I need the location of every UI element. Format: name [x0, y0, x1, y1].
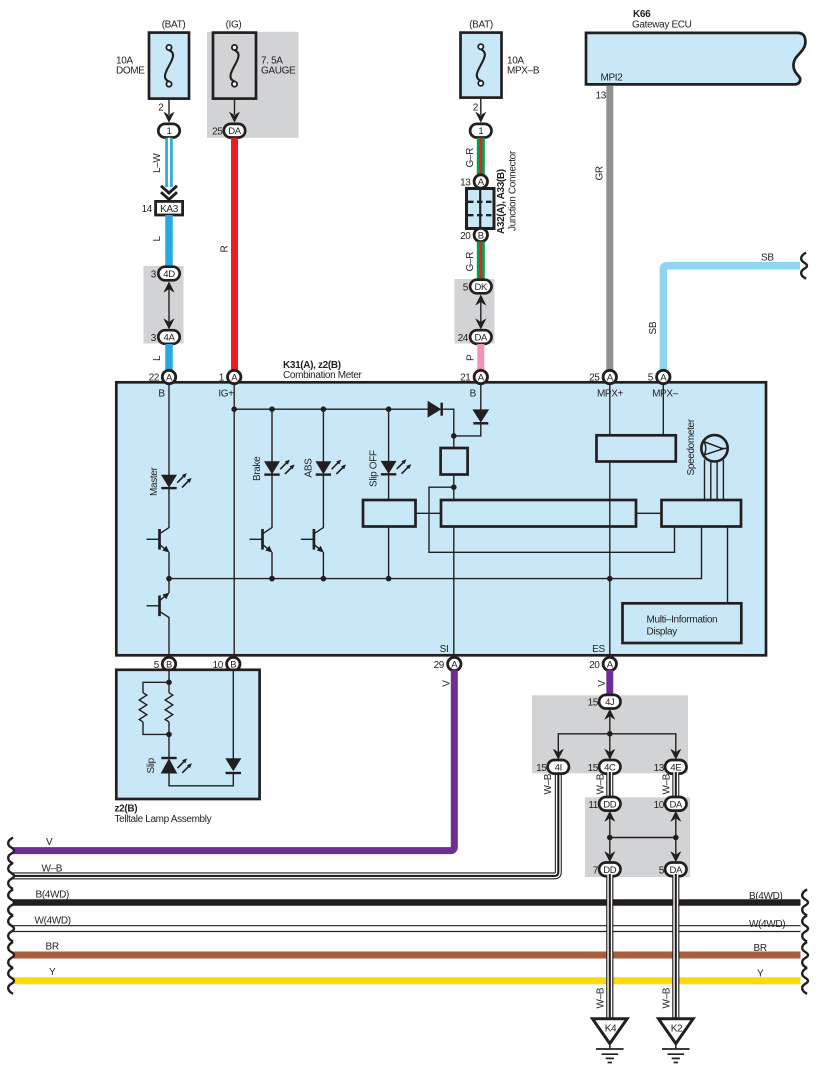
svg-text:10: 10	[654, 800, 665, 811]
svg-text:(BAT): (BAT)	[469, 20, 493, 31]
wire emitter bus	[169, 527, 702, 579]
svg-text:A: A	[231, 373, 238, 384]
wire V (SI to left)	[13, 670, 454, 851]
wire L-W	[152, 138, 169, 187]
svg-text:21: 21	[460, 373, 471, 384]
wire Slip OFF LED to box U2	[388, 475, 390, 501]
svg-text:Master: Master	[149, 467, 160, 496]
svg-text:3: 3	[151, 270, 157, 281]
splice KA3 box	[142, 201, 183, 215]
meter pin 21 A label B	[460, 370, 487, 399]
svg-text:W–B: W–B	[596, 773, 607, 794]
meter pin 10 B	[213, 656, 240, 671]
svg-text:ABS: ABS	[303, 458, 314, 478]
wire SB	[648, 253, 800, 373]
wire U2 below to bus	[388, 527, 390, 580]
svg-text:MPX–B: MPX–B	[507, 66, 540, 77]
wire G-R lower	[465, 242, 481, 281]
wire SI column	[453, 527, 455, 657]
wire node to box U1	[453, 436, 455, 448]
wire Brake column	[271, 409, 273, 461]
svg-text:W–B: W–B	[543, 773, 554, 794]
wire B column (Master)	[168, 383, 170, 475]
svg-text:A: A	[607, 660, 614, 671]
wire tie DD-DA	[610, 837, 676, 839]
svg-text:4J: 4J	[605, 697, 615, 708]
wire SlipOFF column	[388, 409, 390, 461]
wire W-B 4E to DA	[672, 771, 679, 798]
meter pin 5 B	[154, 656, 176, 671]
svg-text:(BAT): (BAT)	[162, 20, 186, 31]
connector pair DD/DA gray block	[585, 797, 690, 877]
connector 4E pin 13	[654, 760, 687, 774]
arrow into 4C	[604, 749, 615, 760]
svg-text:Speedometer: Speedometer	[686, 418, 697, 475]
wire Q3 to bus	[271, 552, 273, 579]
arrows between 4D and 4A	[164, 282, 175, 330]
svg-text:A: A	[478, 177, 485, 188]
LED Slip OFF	[369, 450, 412, 487]
svg-text:13: 13	[460, 178, 471, 189]
wire break V left	[8, 838, 14, 864]
svg-text:Slip: Slip	[146, 757, 157, 773]
wire break Y right	[802, 968, 808, 994]
meter pin 29 A	[434, 657, 461, 671]
resistor R1	[139, 682, 169, 734]
node branch-Brake	[269, 406, 275, 412]
telltale lamp assembly z2(B) box	[115, 670, 260, 825]
connector 4C pin 15	[588, 760, 621, 774]
transistor Q4	[301, 528, 324, 553]
svg-text:5: 5	[463, 283, 469, 294]
fuse F2 7.5A GAUGE gray block	[207, 32, 299, 138]
svg-text:Telltale Lamp Assembly: Telltale Lamp Assembly	[115, 814, 212, 825]
box Multi-Information Display	[623, 603, 742, 643]
node branch-ABS	[321, 406, 327, 412]
svg-text:KA3: KA3	[160, 204, 179, 215]
wire L upper	[152, 215, 169, 270]
transistor Q2	[147, 593, 170, 618]
svg-text:A: A	[478, 373, 485, 384]
arrows and tie DD column	[604, 811, 615, 863]
wire node into U3	[453, 487, 455, 500]
svg-text:B: B	[470, 388, 477, 399]
svg-text:DA: DA	[228, 126, 242, 137]
svg-text:GR: GR	[595, 166, 606, 180]
svg-text:IG+: IG+	[218, 388, 234, 399]
wire Slip LED to diode D3	[169, 774, 233, 786]
svg-text:G–R: G–R	[465, 252, 476, 272]
svg-text:A: A	[660, 373, 667, 384]
connector pair 4D/4A gray block	[144, 266, 184, 344]
wire ABS LED to Q4	[322, 475, 324, 528]
junction connector pin 20 B	[460, 228, 487, 242]
node resistor bottom	[166, 732, 172, 738]
wire pin 10B to diode D3	[232, 670, 234, 759]
svg-text:24: 24	[458, 333, 469, 344]
svg-text:K4: K4	[605, 1024, 617, 1035]
svg-text:11: 11	[588, 800, 598, 811]
svg-text:1: 1	[219, 373, 225, 384]
svg-text:W(4WD): W(4WD)	[749, 919, 785, 930]
LED ABS	[303, 458, 346, 478]
wire break BR right	[802, 942, 808, 968]
wire fuse F2 to connector DA	[229, 98, 240, 123]
svg-text:Brake: Brake	[252, 456, 263, 481]
svg-text:Y: Y	[49, 967, 56, 978]
meter pin 25 A label MPX+	[589, 370, 623, 399]
meter pin 22 A label B	[149, 370, 176, 399]
svg-text:2: 2	[158, 103, 164, 114]
connector 4A	[151, 330, 180, 344]
box U4 (speedometer driver)	[662, 500, 742, 527]
node resistor top	[166, 680, 172, 686]
svg-text:W–B: W–B	[662, 987, 673, 1008]
ground K4	[593, 1019, 628, 1063]
svg-text:Junction Connector: Junction Connector	[508, 150, 519, 231]
svg-text:L: L	[152, 355, 163, 361]
svg-text:V: V	[46, 837, 53, 848]
transistor Q1	[147, 528, 170, 553]
LED Brake	[252, 456, 295, 481]
arrow into 4J	[604, 709, 615, 734]
svg-text:G–R: G–R	[465, 148, 476, 168]
node D1-D2	[451, 433, 457, 439]
wire IG+ column	[233, 383, 235, 656]
meter pin 5 A label MPX-	[648, 370, 679, 399]
wire to Slip LED	[168, 734, 170, 758]
svg-text:4I: 4I	[555, 762, 562, 773]
connector 4D	[151, 267, 180, 281]
wire D2 to node	[454, 423, 481, 436]
svg-text:20: 20	[589, 660, 600, 671]
svg-text:B(4WD): B(4WD)	[749, 891, 782, 902]
svg-text:1: 1	[478, 126, 483, 137]
wire pin21 B diode column	[480, 383, 482, 411]
svg-text:DOME: DOME	[116, 66, 145, 77]
svg-text:SI: SI	[440, 644, 449, 655]
svg-text:V: V	[442, 680, 453, 687]
wire MPX+ into U5	[609, 383, 611, 435]
wire BR	[13, 942, 801, 956]
wire B(4WD)	[13, 889, 801, 902]
svg-text:Display: Display	[647, 626, 678, 637]
wire break Y left	[8, 968, 14, 994]
node bus-ABS	[321, 576, 327, 582]
meter pin 1 A label IG+	[218, 370, 241, 399]
node bus-Brake	[269, 576, 275, 582]
svg-text:GAUGE: GAUGE	[261, 66, 296, 77]
svg-text:R: R	[220, 246, 231, 253]
box U5 (MPX transceiver)	[597, 435, 676, 461]
wire LED to Q1	[168, 488, 170, 528]
wire bus to Q2	[168, 579, 170, 593]
svg-text:DA: DA	[670, 799, 684, 810]
wire branch to 4I 4C 4E	[558, 731, 676, 754]
wire fuse F1 pin 2 to connector 1	[158, 98, 174, 123]
wire ES column	[609, 462, 611, 657]
wire W-B 4C to DD	[606, 771, 613, 798]
wire break W(4WD) right	[802, 916, 808, 942]
svg-text:V: V	[597, 680, 608, 687]
wire Y	[13, 967, 801, 981]
svg-text:5: 5	[648, 373, 654, 384]
svg-text:K2: K2	[671, 1024, 683, 1035]
arrow into 4I	[553, 749, 564, 760]
wire break W-B left	[8, 863, 14, 889]
svg-text:MPX–: MPX–	[652, 388, 679, 399]
node IG+ branch	[231, 406, 237, 412]
svg-text:3: 3	[151, 333, 157, 344]
svg-text:DK: DK	[475, 282, 489, 293]
svg-text:W–B: W–B	[662, 773, 673, 794]
svg-text:4D: 4D	[163, 269, 175, 280]
svg-text:z2(B): z2(B)	[115, 803, 138, 814]
connector DA pin 10	[654, 797, 687, 811]
svg-text:1: 1	[167, 126, 172, 137]
wire D1 to node	[441, 409, 454, 436]
svg-text:7: 7	[593, 865, 599, 876]
connector 4I pin 15	[536, 760, 569, 774]
svg-text:Y: Y	[757, 969, 764, 980]
svg-text:15: 15	[588, 763, 599, 774]
svg-text:BR: BR	[754, 943, 767, 954]
wire P	[466, 344, 481, 372]
wire W-B (4I to left)	[13, 770, 558, 876]
svg-text:5: 5	[659, 865, 665, 876]
wire break B(4WD) right	[802, 890, 808, 916]
LED Slip	[146, 757, 192, 773]
svg-text:B: B	[158, 388, 165, 399]
svg-text:P: P	[466, 354, 477, 361]
wire Q2 to pin 5 B	[168, 617, 170, 656]
connector 4J gray block	[532, 695, 688, 773]
wire Q1 emitter to bus	[168, 552, 170, 579]
speedometer gauge	[686, 418, 728, 475]
wire break BR left	[8, 942, 14, 968]
node bus-SlipOFF	[386, 576, 392, 582]
fuse F3 10A MPX-B	[461, 20, 540, 98]
svg-text:13: 13	[596, 91, 607, 102]
wire Brake LED to Q3	[271, 475, 273, 528]
box U1 (small square)	[441, 448, 468, 475]
wire fuse F3 to connector 1	[473, 97, 487, 123]
combination meter K31(A) z2(B) box	[116, 360, 766, 655]
diode D3	[225, 758, 241, 773]
svg-text:Combination Meter: Combination Meter	[283, 370, 363, 381]
svg-text:A: A	[607, 373, 614, 384]
svg-text:25: 25	[589, 373, 600, 384]
meter pin 20 A	[589, 657, 616, 671]
wire V (ES to 4J)	[597, 670, 610, 696]
connector DD pin 11	[588, 797, 620, 811]
fuse F1 10A DOME	[116, 20, 189, 99]
svg-text:13: 13	[654, 763, 665, 774]
wire W(4WD)	[13, 916, 801, 930]
svg-text:20: 20	[460, 231, 471, 242]
svg-text:Slip OFF: Slip OFF	[369, 450, 380, 487]
diode D2	[472, 409, 489, 423]
wire R	[220, 138, 235, 372]
wire U1 to node	[453, 475, 455, 488]
diode D1	[428, 401, 442, 418]
svg-text:DD: DD	[603, 799, 617, 810]
svg-text:A: A	[451, 660, 458, 671]
wire L lower	[152, 344, 169, 372]
arrows between DK and DA	[475, 295, 486, 330]
wire break SB right	[801, 253, 807, 279]
wire W-B 7DD to ground K4	[596, 874, 610, 1019]
svg-text:25: 25	[212, 127, 223, 138]
arrow into 4E	[670, 749, 681, 760]
wire IG+ branch horizontal	[234, 408, 428, 410]
wire loop to U4	[429, 487, 675, 552]
svg-text:A: A	[166, 373, 173, 384]
svg-text:L: L	[152, 236, 163, 242]
junction connector pin 13 A	[460, 175, 487, 189]
node bus-Master	[166, 576, 172, 582]
wire Q4 to bus	[322, 552, 324, 579]
fuse F2 7.5A GAUGE	[213, 20, 296, 99]
wire U2 to U3	[416, 512, 442, 514]
wire U3 to U4	[636, 512, 662, 514]
svg-text:DA: DA	[475, 333, 489, 344]
svg-text:A32(A), A33(B): A32(A), A33(B)	[496, 169, 507, 234]
svg-text:15: 15	[536, 763, 547, 774]
svg-text:2: 2	[473, 103, 479, 114]
svg-text:BR: BR	[46, 942, 59, 953]
svg-text:15: 15	[588, 698, 599, 709]
svg-text:L–W: L–W	[152, 153, 163, 173]
svg-text:Multi–Information: Multi–Information	[647, 615, 718, 626]
connector DA pin 5	[659, 863, 687, 877]
svg-text:29: 29	[434, 660, 445, 671]
connector DA pin 25	[212, 124, 245, 138]
connector DD pin 7	[593, 863, 621, 877]
wire G-R upper	[465, 138, 481, 176]
connector 1 (DOME)	[158, 124, 179, 138]
svg-text:B: B	[478, 231, 484, 242]
wire GR (gateway MPI2 pin 13)	[595, 86, 610, 372]
node branch-SlipOFF	[386, 406, 392, 412]
wires speedometer to U4	[705, 460, 724, 501]
connector pair DK/DA gray block	[455, 279, 495, 344]
svg-text:(IG): (IG)	[226, 20, 242, 31]
gateway ECU K66	[586, 9, 805, 84]
svg-text:B(4WD): B(4WD)	[36, 889, 69, 900]
svg-text:K66: K66	[633, 9, 651, 20]
connector 4J pin 15	[588, 695, 621, 709]
svg-text:ES: ES	[592, 644, 605, 655]
connector 1 (MPX-B)	[470, 124, 491, 138]
wire U4 to MID	[727, 527, 729, 604]
svg-text:14: 14	[142, 204, 153, 215]
wire break W(4WD) left	[8, 916, 14, 942]
svg-text:Gateway ECU: Gateway ECU	[632, 20, 692, 31]
svg-text:W–B: W–B	[596, 987, 607, 1008]
ground K2	[659, 1019, 694, 1063]
box U2 (Slip OFF driver)	[363, 500, 416, 527]
junction connector A32(A) A33(B)	[467, 150, 519, 234]
connector DK pin 5	[463, 280, 492, 294]
wire MPX- into U5	[662, 383, 664, 435]
svg-text:SB: SB	[648, 321, 659, 334]
svg-text:4A: 4A	[164, 333, 176, 344]
wire W-B 5DA to ground K2	[662, 874, 676, 1019]
box U3 (long)	[441, 500, 636, 527]
node U1 out	[451, 484, 457, 490]
svg-text:MPI2: MPI2	[601, 73, 624, 84]
svg-text:SB: SB	[761, 253, 774, 264]
svg-text:W(4WD): W(4WD)	[35, 916, 71, 927]
resistor R2	[165, 682, 173, 734]
wire pin 5B into telltale	[168, 670, 170, 682]
splice chevron KA3	[161, 186, 177, 200]
connector DA pin 24	[458, 330, 492, 344]
svg-text:22: 22	[149, 373, 160, 384]
node bus-ES	[607, 576, 613, 582]
wire ABS column	[322, 409, 324, 461]
arrows and tie DA column	[670, 811, 681, 863]
wire break B(4WD) left	[8, 890, 14, 916]
transistor Q3	[250, 528, 273, 553]
LED Master	[149, 467, 192, 496]
